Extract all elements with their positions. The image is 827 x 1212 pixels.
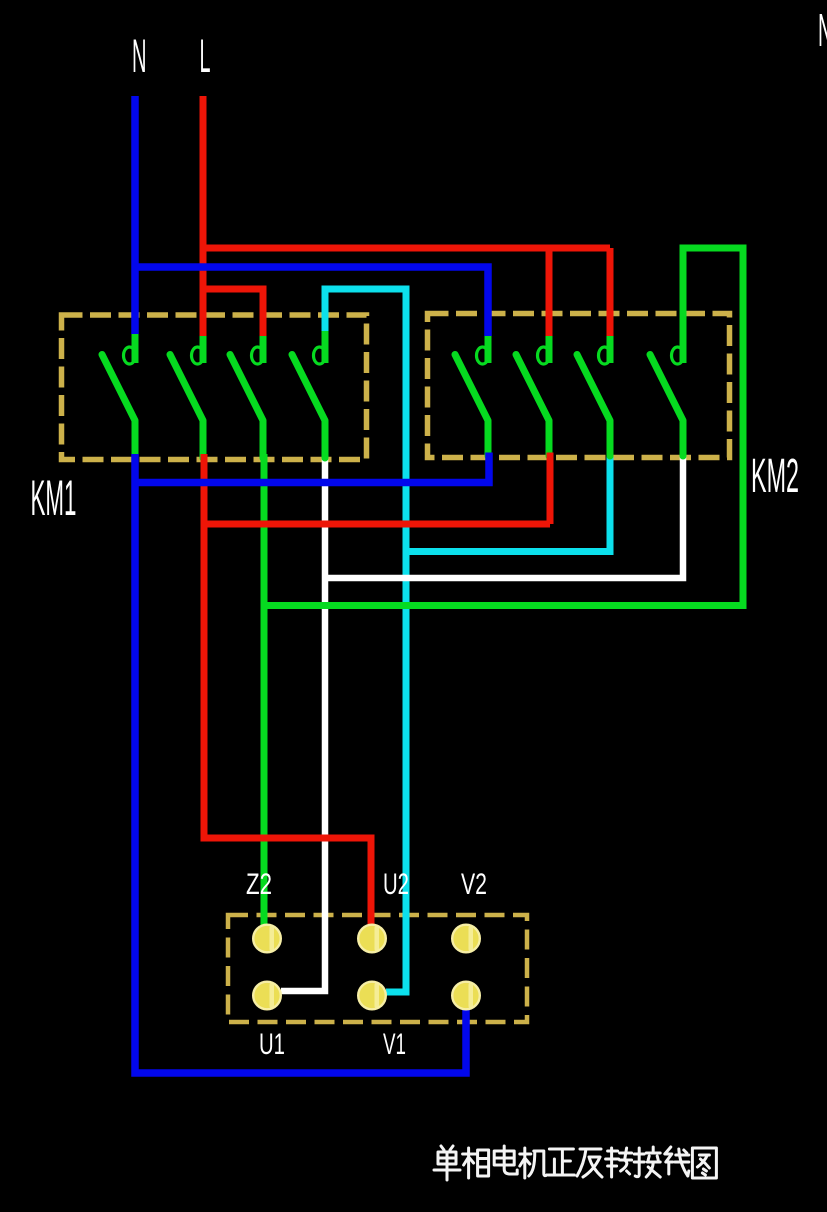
svg-text:KM2: KM2 xyxy=(751,450,799,503)
svg-text:KM1: KM1 xyxy=(31,470,77,526)
title char 线 xyxy=(665,1147,689,1176)
title char 相 xyxy=(463,1148,489,1178)
KM2 pole 2 contact xyxy=(516,331,550,456)
wire white: KM1 pole4 bottom down to U1 terminal xyxy=(281,454,325,991)
terminal V2 xyxy=(452,925,480,953)
terminal V1 xyxy=(358,982,386,1010)
terminal W2 (unlabelled, bottom right) xyxy=(452,982,480,1010)
wire cyan: KM1 pole4 top to long vertical down to V1 terminal xyxy=(325,289,406,992)
title char 电 xyxy=(494,1146,517,1174)
KM1 pole 3 contact xyxy=(230,331,264,458)
contactor KM1 enclosure (dashed box) xyxy=(62,315,367,460)
svg-text:V2: V2 xyxy=(461,868,487,901)
title char 机 xyxy=(520,1148,547,1178)
wire cyan: KM2 pole3 bottom to junction on cyan vertical xyxy=(406,453,610,552)
svg-text:V1: V1 xyxy=(383,1028,406,1061)
title char 接 xyxy=(634,1147,660,1177)
title char 转 xyxy=(606,1148,632,1177)
KM2 pole 4 contact xyxy=(650,331,684,456)
terminal Z2 xyxy=(253,925,281,953)
wire red: top feeder to KM2 poles 2 and 3 xyxy=(203,245,610,252)
wire red: KM1 pole2 bottom down and over to U2 terminal xyxy=(204,454,371,926)
wire red: drop to KM2 pole2 top xyxy=(546,248,553,336)
title 单相电机正反转接线图 (hand drawn strokes) xyxy=(434,1146,716,1180)
svg-text:N: N xyxy=(132,29,147,82)
KM2 pole 3 contact xyxy=(577,331,611,456)
title char 图 xyxy=(692,1148,716,1178)
svg-text:Z2: Z2 xyxy=(246,868,272,901)
wire blue: KM1 pole1 bottom down, along bottom, up to W2 terminal xyxy=(135,454,466,1073)
wire red: cross link to KM2 pole2 bottom xyxy=(204,521,550,528)
KM1 pole 1 contact xyxy=(102,331,136,458)
title char 反 xyxy=(577,1149,602,1177)
terminal U1 xyxy=(253,982,281,1010)
svg-text:L: L xyxy=(200,29,211,82)
KM1 pole 2 contact xyxy=(170,331,204,458)
KM2 pole 1 contact xyxy=(455,331,489,456)
svg-text:N: N xyxy=(818,4,827,56)
svg-text:U1: U1 xyxy=(259,1028,285,1061)
wire green: junction to right riser up and over into KM2 pole4 top xyxy=(264,248,743,606)
motor terminal block enclosure (dashed box) xyxy=(228,915,527,1022)
title char 正 xyxy=(548,1149,574,1175)
wire blue: KM2 pole1 bottom link to KM1 pole1 bottom xyxy=(135,453,489,483)
wire red: drop to KM2 pole3 top xyxy=(607,248,614,336)
wire white: KM2 pole4 bottom to junction on white vertical xyxy=(325,453,683,579)
wire blue: branch over to KM2 pole1 top xyxy=(135,267,488,336)
wire red: KM2 pole2 bottom drop xyxy=(547,453,554,525)
wire red: phase L drop into KM1 pole2 xyxy=(200,96,207,336)
title char 单 xyxy=(434,1146,460,1180)
wire blue: neutral N main drop into KM1 pole1 xyxy=(131,96,139,334)
wire red: jog from L to KM1 pole3 top xyxy=(203,289,263,336)
terminal U2 xyxy=(358,925,386,953)
wire green: KM1 pole3 bottom down to Z2 terminal xyxy=(261,454,268,927)
KM1 pole 4 contact xyxy=(292,331,326,458)
svg-text:U2: U2 xyxy=(383,868,409,901)
contactor KM2 enclosure (dashed box) xyxy=(428,314,730,458)
